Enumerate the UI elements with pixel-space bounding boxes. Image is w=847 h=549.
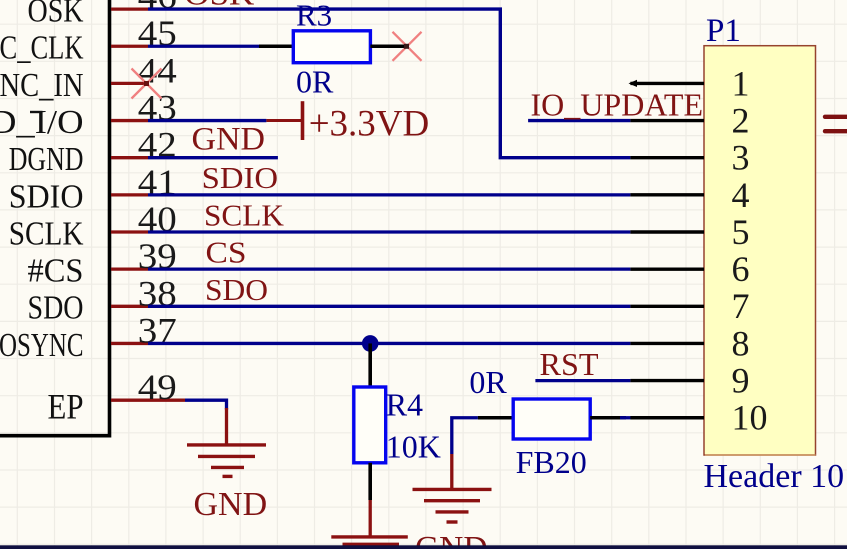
pin 43 xyxy=(111,119,148,122)
svg-text:SCLK: SCLK xyxy=(204,198,285,233)
pin 49 EP xyxy=(111,399,185,402)
svg-text:10: 10 xyxy=(732,398,768,438)
svg-text:8: 8 xyxy=(732,323,750,363)
pin 45 xyxy=(111,45,148,48)
header pin 2 xyxy=(630,119,704,122)
wire pin39 to header pin6 (CS) xyxy=(148,267,630,270)
svg-text:49: 49 xyxy=(138,367,177,407)
svg-text:+3.3VD: +3.3VD xyxy=(309,103,430,144)
R3 right lead xyxy=(370,44,406,48)
wire FB20 left to GND xyxy=(452,418,478,454)
FB20 right lead xyxy=(590,416,626,420)
svg-text:2: 2 xyxy=(732,101,750,141)
R4 ground stem xyxy=(369,500,372,537)
svg-text:0R: 0R xyxy=(296,63,334,99)
svg-text:4: 4 xyxy=(732,175,750,215)
header P1 box xyxy=(704,46,816,455)
header pin 6 xyxy=(630,267,704,270)
svg-text:SDIO: SDIO xyxy=(202,161,279,195)
resistor R4 body xyxy=(354,387,386,463)
pin 39 xyxy=(111,267,148,270)
R4 bottom lead xyxy=(368,463,372,500)
header pin 1 xyxy=(630,82,704,85)
svg-text:Header 10: Header 10 xyxy=(704,458,845,495)
ground GND (FB20) xyxy=(413,489,492,522)
svg-text:EP: EP xyxy=(48,387,84,427)
pin 40 xyxy=(111,230,148,233)
ferrite bead FB20 body xyxy=(513,399,590,439)
svg-text:3: 3 xyxy=(732,138,750,178)
wire pin45 to R3 xyxy=(148,45,259,48)
svg-text:GND: GND xyxy=(192,122,266,158)
header pin 5 xyxy=(630,230,704,233)
ground GND (EP) xyxy=(187,445,266,477)
svg-text:SCLK: SCLK xyxy=(9,215,84,252)
svg-text:OSYNC: OSYNC xyxy=(0,327,84,364)
FB20 left lead xyxy=(478,416,513,420)
header pin 9 xyxy=(630,379,704,382)
svg-text:R4: R4 xyxy=(386,387,423,423)
svg-text:P1: P1 xyxy=(706,13,741,49)
wire RST to header pin9 xyxy=(535,379,630,382)
svg-text:GND: GND xyxy=(194,486,268,523)
wire pin37 to header pin8 (OSYNC) xyxy=(148,342,630,345)
svg-text:SDIO: SDIO xyxy=(9,178,84,215)
wire IO_UPDATE to header pin2 xyxy=(528,119,630,122)
header pin 4 xyxy=(630,193,704,196)
svg-text:9: 9 xyxy=(732,361,750,401)
wire pin41 to header pin4 (SDIO) xyxy=(148,193,630,196)
svg-text:OSK: OSK xyxy=(184,0,254,12)
pin 41 xyxy=(111,193,148,196)
svg-text:FB20: FB20 xyxy=(516,444,587,480)
svg-text:#CS: #CS xyxy=(28,253,84,290)
wire stub pin10 join xyxy=(620,416,633,419)
power port symbol (clipped at right edge) xyxy=(825,117,847,131)
header pin 3 xyxy=(630,156,704,159)
pin 44 xyxy=(111,82,148,85)
wire pin38 to header pin7 (SDO) xyxy=(148,305,630,308)
wire pin43 to power xyxy=(148,119,266,122)
svg-text:C_CLK: C_CLK xyxy=(0,30,84,67)
IC body border (left component, partially visible) xyxy=(0,0,110,436)
header pin 7 xyxy=(630,305,704,308)
wire EP to GND xyxy=(185,400,227,409)
svg-text:OSK: OSK xyxy=(28,0,84,30)
svg-text:6: 6 xyxy=(732,249,750,289)
svg-text:1: 1 xyxy=(732,63,750,103)
wire pin40 to header pin5 (SCLK) xyxy=(148,230,630,233)
svg-text:0R: 0R xyxy=(469,364,507,400)
svg-text:SDO: SDO xyxy=(205,272,268,307)
+3.3VD power port bar xyxy=(266,101,302,140)
junction dot xyxy=(362,335,379,352)
header pin 10 xyxy=(630,416,704,419)
svg-text:5: 5 xyxy=(732,212,750,252)
svg-text:10K: 10K xyxy=(386,429,441,465)
wire pin42 (GND net) xyxy=(148,156,278,159)
header pin 8 xyxy=(630,342,704,345)
svg-text:44: 44 xyxy=(138,50,177,90)
pin 42 xyxy=(111,156,148,159)
svg-text:RST: RST xyxy=(540,346,599,382)
svg-text:CS: CS xyxy=(206,235,247,270)
svg-text:NC_IN: NC_IN xyxy=(0,67,84,104)
svg-text:SDO: SDO xyxy=(28,290,84,327)
EP ground stem xyxy=(225,408,228,444)
ground (R4, clipped) xyxy=(331,535,408,538)
svg-text:D_I/O: D_I/O xyxy=(0,104,84,141)
svg-text:R3: R3 xyxy=(296,0,332,33)
R4 top lead xyxy=(368,343,372,387)
overline on I of D_I/O xyxy=(30,111,43,113)
no-ERC X at R3 right xyxy=(393,32,422,61)
FB20 ground stem xyxy=(450,454,453,489)
svg-text:7: 7 xyxy=(732,286,750,326)
resistor R3 body xyxy=(293,31,370,63)
wire pin46 to header pin3 xyxy=(148,9,630,158)
svg-text:IO_UPDATE: IO_UPDATE xyxy=(531,86,704,122)
pin 46 xyxy=(111,7,148,10)
no-ERC X at pin 44 xyxy=(132,69,162,99)
pin 37 xyxy=(111,342,148,345)
pin 38 xyxy=(111,305,148,308)
R3 left lead xyxy=(259,44,293,48)
svg-text:DGND: DGND xyxy=(9,141,84,178)
